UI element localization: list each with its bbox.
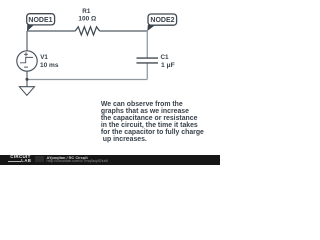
svg-text:100 Ω: 100 Ω bbox=[78, 16, 96, 23]
svg-text:R1: R1 bbox=[82, 8, 91, 15]
svg-text:V1: V1 bbox=[40, 54, 48, 61]
svg-text:1 µF: 1 µF bbox=[161, 62, 175, 69]
svg-text:NODE2: NODE2 bbox=[150, 17, 174, 24]
svg-text:C1: C1 bbox=[161, 54, 170, 61]
svg-text:10 ms: 10 ms bbox=[40, 62, 59, 69]
svg-text:NODE1: NODE1 bbox=[28, 17, 52, 24]
